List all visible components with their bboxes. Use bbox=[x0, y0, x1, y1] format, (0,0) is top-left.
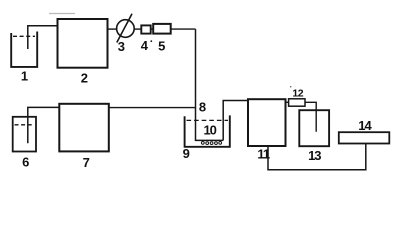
unit 7 bbox=[59, 104, 109, 152]
trap 13 bbox=[299, 110, 329, 146]
drain wire from unit 11 to unit 14 bbox=[268, 143, 366, 169]
svg-text:8: 8 bbox=[199, 100, 206, 115]
tube from vessel 1 to unit 2 bbox=[28, 26, 58, 49]
wire 4-5 bbox=[151, 28, 154, 30]
svg-text:12: 12 bbox=[292, 88, 303, 100]
water level in beaker 9 bbox=[187, 119, 229, 121]
svg-text:6: 6 bbox=[22, 155, 29, 170]
unit 2 bbox=[58, 19, 108, 68]
speck between labels 4 and 5 bbox=[150, 40, 152, 42]
unit 14 bbox=[339, 132, 390, 143]
liquid level in vessel 1 bbox=[13, 35, 35, 37]
wire 2-3 bbox=[108, 28, 118, 30]
wire 7 to gas line 8 junction bbox=[109, 107, 196, 109]
liquid level in vessel 6 bbox=[15, 124, 35, 126]
vessel 6 (closed reservoir) bbox=[13, 117, 36, 152]
wire 11-12 bbox=[286, 101, 289, 103]
valve 4 bbox=[141, 25, 150, 33]
svg-text:1: 1 bbox=[21, 69, 28, 84]
scan artifact line above unit 2 bbox=[49, 13, 75, 15]
pump 3 bbox=[117, 14, 135, 43]
vessel 1 (open beaker) bbox=[11, 32, 37, 67]
svg-text:2: 2 bbox=[81, 71, 88, 86]
cell 10 bottom bbox=[195, 139, 223, 141]
wire 12 into trap 13 bbox=[305, 102, 316, 132]
gas line 8 vertical into cell 10 bbox=[195, 29, 197, 140]
svg-text:14: 14 bbox=[358, 118, 372, 133]
svg-text:3: 3 bbox=[118, 39, 125, 54]
outlet wire from cell 10 to unit 11 bbox=[223, 101, 248, 141]
unit 11 bbox=[248, 99, 286, 146]
gas line 8 horizontal from filter 5 bbox=[171, 28, 196, 30]
svg-text:5: 5 bbox=[158, 38, 165, 53]
wire 3-4 bbox=[134, 28, 141, 30]
speck above label 12 bbox=[290, 86, 291, 87]
tube from vessel 6 to unit 7 bbox=[28, 107, 60, 143]
sensor 12 bbox=[289, 99, 305, 106]
svg-text:7: 7 bbox=[83, 155, 90, 170]
svg-text:4: 4 bbox=[141, 38, 149, 53]
gas bubbles under cell 10 bbox=[201, 142, 221, 145]
svg-text:9: 9 bbox=[183, 146, 190, 161]
svg-text:13: 13 bbox=[308, 148, 321, 163]
beaker 9 (open water bath) bbox=[185, 115, 230, 146]
filter 5 bbox=[153, 24, 171, 34]
svg-text:10: 10 bbox=[203, 123, 216, 138]
svg-text:11: 11 bbox=[257, 146, 270, 161]
